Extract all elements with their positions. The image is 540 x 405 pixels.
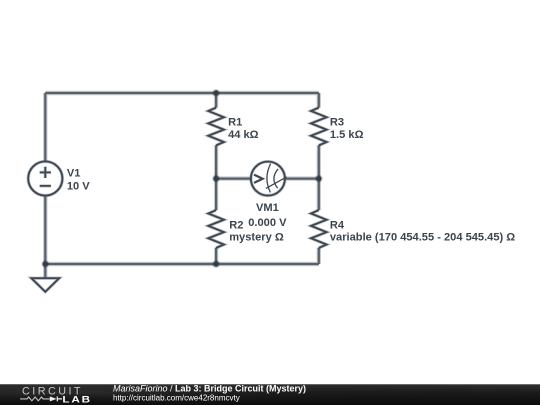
soft halo under junction dots [41, 89, 322, 268]
svg-text:R3: R3 [330, 116, 344, 128]
halo: VM1 circle [251, 162, 285, 196]
node: bottom junction at R2 [213, 261, 218, 266]
footer bar [0, 384, 540, 405]
svg-text:44 kΩ: 44 kΩ [228, 129, 259, 141]
svg-text:variable (170 454.55 - 204 545: variable (170 454.55 - 204 545.45) Ω [330, 232, 515, 244]
svg-text:V1: V1 [67, 167, 81, 179]
wire: R2 leads [215, 179, 217, 264]
svg-text:R1: R1 [228, 116, 242, 128]
wire: ground stem [44, 264, 46, 277]
halo: ground junction dot [41, 260, 49, 268]
node: ground junction [43, 261, 48, 266]
logo wire with resistor [20, 397, 50, 401]
wire: left rail lower [44, 196, 46, 265]
resistor R1 zigzag [208, 108, 224, 146]
resistor R4 zigzag [311, 210, 327, 248]
node: top junction [213, 90, 218, 95]
wire: R3 leads [318, 93, 320, 179]
wire: bottom rail [45, 263, 319, 265]
halo: bottom junction dot [212, 260, 220, 268]
svg-text:mystery Ω: mystery Ω [229, 232, 284, 244]
wire: R1 leads [215, 93, 217, 179]
resistor R3 zigzag [311, 108, 327, 146]
halo: resistor zigzags R1 R2 R3 R4 [208, 108, 326, 248]
wire: R4 leads [318, 179, 320, 264]
halo: V1 polarity marks [40, 167, 51, 186]
halo: node C dot [315, 175, 323, 183]
voltage source V1 [28, 161, 62, 195]
voltmeter VM1 [251, 162, 287, 196]
svg-text:0.000 V: 0.000 V [248, 217, 287, 229]
wire: top rail [45, 92, 319, 94]
halo: ground triangle [31, 278, 59, 292]
svg-text:LAB: LAB [62, 394, 92, 405]
node C (R3/R4/VM1) [316, 176, 321, 181]
svg-text:R4: R4 [330, 220, 345, 232]
svg-text:10 V: 10 V [67, 180, 90, 192]
svg-text:R2: R2 [229, 220, 243, 232]
svg-text:MarisaFiorino / Lab 3: Bridge: MarisaFiorino / Lab 3: Bridge Circuit (M… [113, 384, 306, 394]
halo: top junction dot [212, 89, 220, 97]
logo diode [50, 396, 57, 401]
ground triangle [31, 278, 59, 292]
resistor R2 zigzag [208, 210, 224, 248]
halo: V1 circle [28, 161, 62, 195]
svg-text:1.5 kΩ: 1.5 kΩ [330, 129, 364, 141]
halo: node B dot [212, 175, 220, 183]
wire: voltmeter to node C [285, 178, 319, 180]
svg-text:VM1: VM1 [256, 202, 279, 214]
wire: node B to voltmeter [216, 178, 251, 180]
soft halo under symbols [28, 108, 326, 292]
soft halo under wires [45, 93, 319, 277]
node B (R1/R2/VM1) [213, 176, 218, 181]
svg-text:http://circuitlab.com/cwe42r8n: http://circuitlab.com/cwe42r8nmcvty [113, 393, 240, 402]
wire: left rail upper [44, 93, 46, 162]
